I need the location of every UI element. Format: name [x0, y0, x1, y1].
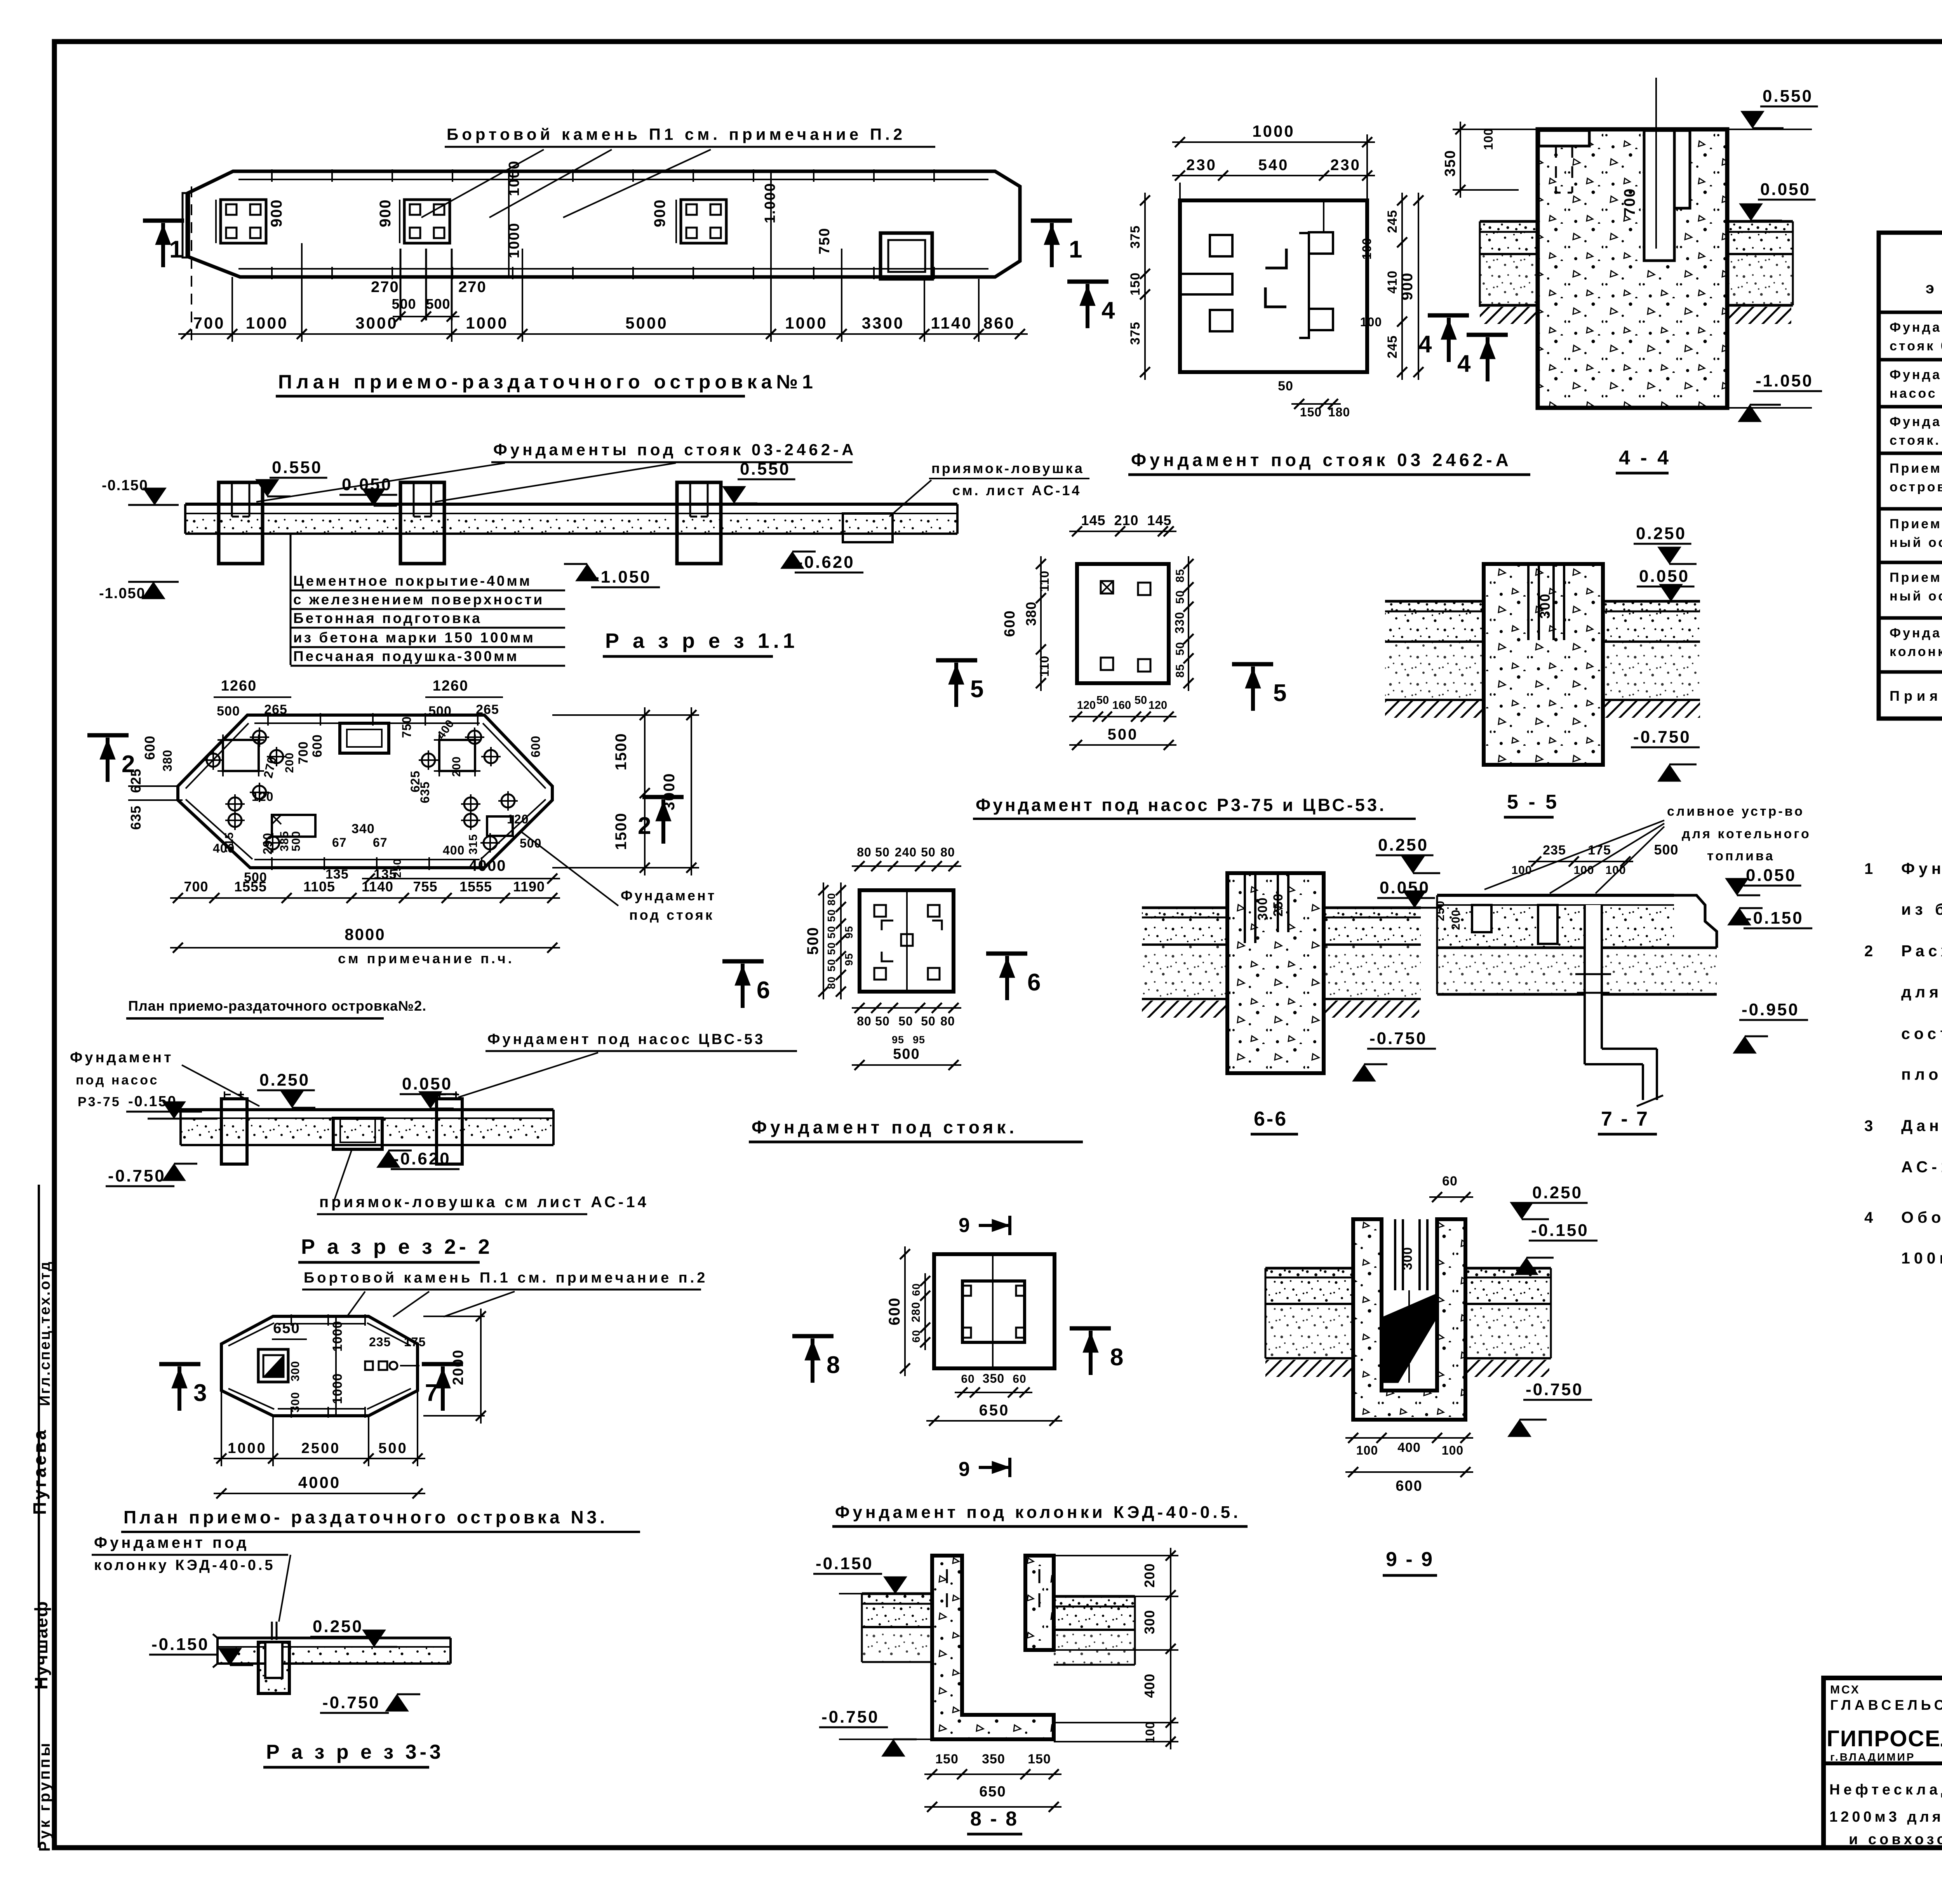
svg-text:0.050: 0.050	[402, 1074, 452, 1093]
svg-text:750: 750	[816, 228, 833, 254]
svg-text:План приемо-раздаточного остр: План приемо-раздаточного островка№2.	[128, 998, 426, 1014]
svg-text:0.050: 0.050	[1639, 567, 1690, 586]
svg-text:-1.050: -1.050	[1756, 371, 1813, 390]
svg-text:9 - 9: 9 - 9	[1386, 1548, 1434, 1571]
svg-text:приямок-ловушка: приямок-ловушка	[931, 460, 1084, 476]
svg-text:Данный лист смотреть совмес: Данный лист смотреть совместно с листом	[1901, 1117, 1942, 1135]
svg-text:Р а з р е з 2- 2: Р а з р е з 2- 2	[301, 1235, 493, 1258]
svg-text:900: 900	[1399, 272, 1416, 301]
svg-text:500: 500	[217, 704, 240, 719]
svg-text:80: 80	[940, 1014, 955, 1028]
svg-text:2000: 2000	[450, 1349, 466, 1385]
svg-text:План приемо-раздаточного ост: План приемо-раздаточного островка№1	[278, 371, 817, 393]
svg-text:1: 1	[1069, 236, 1082, 263]
svg-text:стояк.: стояк.	[1890, 433, 1941, 448]
svg-text:67: 67	[332, 835, 347, 849]
section 7-7	[1434, 804, 1812, 1106]
svg-text:110: 110	[1037, 656, 1051, 677]
svg-text:9: 9	[959, 1458, 970, 1481]
svg-text:150: 150	[1128, 272, 1143, 296]
section 8-8	[813, 1548, 1178, 1834]
svg-text:2: 2	[122, 751, 135, 778]
svg-text:500: 500	[392, 296, 416, 312]
svg-text:Рук группы: Рук группы	[36, 1741, 53, 1852]
svg-text:80: 80	[825, 893, 837, 905]
svg-text:Р а з р е з 3-3: Р а з р е з 3-3	[266, 1741, 444, 1763]
left margin rule	[38, 1185, 40, 1848]
svg-text:385: 385	[278, 831, 291, 851]
section Разрез 1-1	[99, 440, 1089, 666]
svg-text:э л е м е н т а.: э л е м е н т а.	[1926, 280, 1942, 297]
svg-text:Пугаева: Пугаева	[30, 1428, 50, 1515]
svg-text:0.550: 0.550	[272, 458, 322, 477]
svg-text:7 - 7: 7 - 7	[1601, 1108, 1649, 1130]
svg-text:300: 300	[289, 1392, 302, 1412]
svg-text:700: 700	[184, 879, 208, 895]
svg-text:60: 60	[910, 1283, 922, 1296]
svg-text:85: 85	[1174, 664, 1187, 677]
svg-text:0.050: 0.050	[1746, 866, 1796, 885]
svg-text:МСХ: МСХ	[1830, 1683, 1860, 1696]
svg-text:67: 67	[373, 835, 388, 849]
svg-text:50: 50	[921, 845, 936, 859]
svg-text:колонку КЭД-40-0.5.: колонку КЭД-40-0.5.	[1890, 644, 1942, 659]
svg-text:240: 240	[895, 845, 917, 859]
svg-text:-0.950: -0.950	[1742, 1000, 1799, 1019]
svg-text:4 - 4: 4 - 4	[1619, 447, 1671, 469]
svg-text:Фундамент под насос ЦВС-53: Фундамент под насос ЦВС-53	[487, 1031, 765, 1048]
section Разрез 2-2	[70, 1031, 797, 1262]
svg-text:из бетона марки- 150.: из бетона марки- 150.	[1901, 900, 1942, 918]
svg-text:-0.750: -0.750	[1369, 1029, 1427, 1048]
svg-text:для отделения приемо-разда т: для отделения приемо-разда точной площад…	[1901, 983, 1942, 1001]
svg-text:300: 300	[1255, 897, 1270, 921]
svg-text:Бортовой камень П1 см. п: Бортовой камень П1 см. примечание П.2	[447, 125, 906, 143]
svg-text:50: 50	[1135, 694, 1147, 707]
svg-text:175: 175	[404, 1335, 426, 1349]
svg-text:50: 50	[921, 1014, 936, 1028]
svg-text:составляет-36шт; для площадк: составляет-36шт; для площадки 2 - 17шт. …	[1901, 1025, 1942, 1043]
svg-text:Фундамент под колонки КЭД-40: Фундамент под колонки КЭД-40-0.5.	[835, 1503, 1241, 1522]
svg-text:100: 100	[1511, 864, 1532, 877]
svg-text:2: 2	[1864, 943, 1873, 960]
svg-text:1200м3 для колхозов: 1200м3 для колхозов	[1829, 1809, 1942, 1825]
svg-text:ГИПРОСЕЛЬХОЗПРОМ: ГИПРОСЕЛЬХОЗПРОМ	[1827, 1726, 1942, 1751]
svg-text:500: 500	[378, 1440, 407, 1457]
svg-text:50: 50	[825, 926, 837, 938]
svg-text:50: 50	[825, 909, 837, 922]
svg-text:-0.750: -0.750	[821, 1707, 879, 1726]
svg-text:900: 900	[651, 199, 668, 227]
svg-text:600: 600	[310, 734, 325, 757]
svg-text:Фундамент под: Фундамент под	[1890, 626, 1942, 640]
svg-text:0.250: 0.250	[1636, 524, 1686, 543]
svg-text:Нучшаеф: Нучшаеф	[31, 1601, 51, 1690]
svg-text:Игл.спец.тех.отд: Игл.спец.тех.отд	[37, 1260, 53, 1406]
svg-text:-0.150: -0.150	[151, 1635, 209, 1654]
section 5-5	[1385, 524, 1700, 781]
svg-text:8000: 8000	[345, 925, 385, 943]
plan: фундамент под стояк 03 2462-А	[1067, 122, 1671, 475]
svg-text:Фундамент под стояк 03 2462-: Фундамент под стояк 03 2462-А	[1131, 450, 1512, 470]
svg-text:50: 50	[1096, 694, 1109, 707]
svg-text:300: 300	[289, 1361, 302, 1381]
svg-text:315: 315	[467, 834, 480, 855]
svg-text:8 - 8: 8 - 8	[970, 1808, 1018, 1830]
svg-text:1555: 1555	[234, 879, 267, 895]
svg-text:350: 350	[983, 1371, 1004, 1385]
left margin signatures (rotated)	[30, 1260, 53, 1852]
svg-text:1000: 1000	[246, 314, 288, 332]
svg-text:0.550: 0.550	[1763, 87, 1813, 106]
svg-text:5: 5	[1273, 680, 1286, 707]
svg-text:Р а з р е з 1.1: Р а з р е з 1.1	[605, 629, 799, 653]
svg-text:270: 270	[371, 278, 399, 296]
svg-text:см примечание п.ч.: см примечание п.ч.	[338, 950, 514, 966]
svg-text:7: 7	[425, 1380, 438, 1406]
svg-text:340: 340	[352, 821, 375, 836]
svg-text:0.250: 0.250	[313, 1617, 363, 1636]
svg-text:300: 300	[1142, 1610, 1157, 1634]
svg-text:Фундаменты под оборудование: Фундаменты под оборудование выполнить	[1901, 860, 1942, 877]
svg-text:380: 380	[160, 750, 174, 771]
svg-text:5 - 5: 5 - 5	[1507, 791, 1559, 813]
svg-text:80: 80	[857, 1014, 872, 1028]
svg-text:750: 750	[400, 716, 414, 738]
svg-text:60: 60	[1013, 1373, 1026, 1385]
svg-text:-0.150: -0.150	[1531, 1221, 1589, 1240]
svg-text:250: 250	[391, 858, 403, 878]
svg-text:6: 6	[1027, 969, 1041, 996]
svg-text:Фундамент под: Фундамент под	[94, 1534, 249, 1551]
svg-text:Фундамент: Фундамент	[70, 1049, 174, 1066]
svg-text:4000: 4000	[469, 857, 506, 874]
svg-text:1260: 1260	[433, 678, 469, 694]
svg-text:9: 9	[959, 1214, 970, 1237]
svg-text:230: 230	[1330, 157, 1361, 174]
svg-text:50: 50	[875, 845, 890, 859]
svg-text:380: 380	[1023, 601, 1039, 626]
svg-text:100: 100	[1360, 315, 1382, 329]
svg-text:50: 50	[1174, 590, 1187, 604]
svg-text:245: 245	[1385, 210, 1400, 233]
svg-text:860: 860	[983, 314, 1015, 332]
svg-text:330: 330	[1173, 612, 1187, 634]
svg-text:Фундамент: Фундамент	[621, 888, 716, 903]
svg-text:Расход бортовых камней "П: Расход бортовых камней "П (ГОСТ 6665-63)	[1901, 942, 1942, 960]
svg-text:Фундаменты под стояк 03-2462: Фундаменты под стояк 03-2462-А	[493, 440, 856, 459]
svg-text:500: 500	[290, 831, 303, 851]
svg-text:50: 50	[898, 1014, 913, 1028]
svg-text:700: 700	[193, 314, 225, 332]
svg-text:200: 200	[283, 752, 296, 773]
svg-text:100: 100	[1481, 128, 1495, 150]
svg-text:500: 500	[426, 296, 450, 312]
svg-text:8: 8	[1110, 1344, 1123, 1371]
svg-text:290: 290	[261, 833, 275, 855]
svg-text:160: 160	[1112, 699, 1131, 712]
svg-text:900: 900	[268, 199, 285, 227]
svg-text:сливное устр-во: сливное устр-во	[1667, 804, 1805, 819]
svg-text:175: 175	[1588, 843, 1611, 858]
svg-text:350: 350	[1442, 150, 1458, 176]
svg-text:265: 265	[476, 702, 499, 717]
svg-text:см. лист АС-14: см. лист АС-14	[952, 482, 1081, 498]
svg-text:ГЛАВСЕЛЬСТРОЙПРОЕКТ: ГЛАВСЕЛЬСТРОЙПРОЕКТ	[1830, 1697, 1942, 1713]
svg-text:3: 3	[193, 1380, 207, 1406]
plan: приемо-раздаточный островок 2	[87, 678, 716, 1018]
svg-text:1500: 1500	[613, 813, 630, 850]
svg-text:350: 350	[982, 1752, 1005, 1767]
svg-text:1000: 1000	[785, 314, 827, 332]
svg-text:Песчаная подушка-300мм: Песчаная подушка-300мм	[293, 648, 519, 664]
title block	[1824, 1678, 1942, 1848]
svg-text:4: 4	[1864, 1209, 1873, 1226]
svg-text:Фундамент под: Фундамент под	[1890, 367, 1942, 382]
svg-text:100: 100	[1573, 864, 1594, 877]
svg-text:400: 400	[213, 841, 235, 855]
svg-text:300: 300	[1537, 593, 1553, 619]
label фундамент под колонку КЭД-40-0.5	[92, 1534, 291, 1622]
svg-text:5000: 5000	[625, 314, 668, 332]
section 9-9	[1265, 1174, 1597, 1575]
svg-text:50: 50	[825, 959, 837, 971]
svg-text:-0.750: -0.750	[322, 1693, 380, 1712]
svg-text:Приямок-ловушка.: Приямок-ловушка.	[1890, 688, 1942, 704]
svg-text:85: 85	[1174, 569, 1187, 582]
svg-text:под стояк: под стояк	[629, 907, 714, 923]
svg-text:635: 635	[128, 805, 144, 830]
svg-text:АС-14: АС-14	[1901, 1158, 1942, 1176]
svg-text:600: 600	[1002, 610, 1018, 637]
svg-text:1000: 1000	[228, 1440, 267, 1457]
svg-text:900: 900	[377, 199, 394, 227]
svg-text:-0.750: -0.750	[1526, 1380, 1584, 1399]
svg-text:и совхозов.: и совхозов.	[1849, 1831, 1942, 1848]
svg-text:1105: 1105	[303, 879, 335, 895]
svg-text:50: 50	[1174, 642, 1187, 655]
svg-text:1500: 1500	[613, 733, 630, 771]
svg-text:50: 50	[875, 1014, 890, 1028]
svg-text:Бортовой камень П.1 см. при: Бортовой камень П.1 см. примечание п.2	[304, 1270, 708, 1286]
svg-text:-0.150: -0.150	[1746, 908, 1804, 928]
svg-text:1260: 1260	[221, 678, 257, 694]
svg-text:ный островок 3.: ный островок 3.	[1890, 589, 1942, 604]
svg-text:колонку КЭД-40-0.5: колонку КЭД-40-0.5	[94, 1557, 275, 1573]
svg-text:265: 265	[264, 702, 287, 717]
svg-text:150: 150	[935, 1752, 959, 1767]
svg-text:1555: 1555	[459, 879, 492, 895]
svg-text:3: 3	[1864, 1117, 1873, 1135]
plan: фундамент под насос РЗ-75 и ЦВС-53	[936, 512, 1559, 819]
svg-text:375: 375	[1128, 225, 1143, 249]
svg-text:1: 1	[169, 236, 183, 263]
section Разрез 3-3	[149, 1617, 451, 1767]
svg-text:Фундамент под: Фундамент под	[1890, 320, 1942, 335]
svg-text:для котельного: для котельного	[1682, 827, 1811, 841]
svg-text:600: 600	[886, 1297, 903, 1326]
svg-text:600: 600	[1396, 1478, 1422, 1494]
svg-text:0.250: 0.250	[259, 1070, 310, 1089]
svg-text:635: 635	[418, 781, 432, 803]
svg-text:Р3-75: Р3-75	[78, 1095, 121, 1109]
svg-text:120: 120	[1148, 699, 1167, 712]
svg-text:120: 120	[252, 790, 273, 804]
svg-text:6: 6	[757, 977, 770, 1004]
section 4-4	[1442, 78, 1822, 422]
svg-text:1000: 1000	[1252, 122, 1295, 140]
svg-text:Нефтесклад емкостью: Нефтесклад емкостью	[1829, 1782, 1942, 1798]
table: Расход бетона	[1879, 208, 1942, 719]
svg-text:приямок-ловушка см лист АС-: приямок-ловушка см лист АС-14	[319, 1194, 649, 1211]
svg-text:80: 80	[857, 845, 872, 859]
plan: фундамент под колонки КЭД-40-0.5	[792, 1214, 1248, 1526]
svg-text:стояк 03-2462-А.: стояк 03-2462-А.	[1890, 339, 1942, 353]
svg-text:4: 4	[1418, 331, 1432, 358]
svg-text:245: 245	[1385, 335, 1400, 359]
svg-text:60: 60	[910, 1330, 922, 1342]
svg-text:-0.150: -0.150	[102, 477, 148, 494]
svg-text:50: 50	[825, 942, 837, 955]
svg-text:150: 150	[1300, 405, 1322, 419]
svg-text:-0.750: -0.750	[1633, 727, 1691, 747]
svg-text:270: 270	[458, 278, 487, 296]
svg-text:Обозначенные колодцы выполни: Обозначенные колодцы выполнить ф 50мм. г…	[1901, 1208, 1942, 1226]
svg-text:Приемо-раздаточный: Приемо-раздаточный	[1890, 461, 1942, 476]
svg-text:5: 5	[970, 676, 983, 703]
svg-text:4: 4	[1457, 350, 1471, 377]
svg-text:250: 250	[1271, 893, 1286, 917]
svg-text:650: 650	[273, 1320, 300, 1337]
svg-text:1190: 1190	[513, 879, 545, 895]
svg-text:230: 230	[1186, 157, 1217, 174]
svg-text:Фундамент под стояк.: Фундамент под стояк.	[752, 1117, 1018, 1137]
svg-text:площадки 3 - 10шт.: площадки 3 - 10шт.	[1901, 1065, 1942, 1083]
svg-text:ный островок 2: ный островок 2	[1890, 535, 1942, 550]
svg-text:4000: 4000	[298, 1473, 341, 1492]
svg-text:500: 500	[1108, 726, 1138, 743]
svg-text:Приемо-раздаточ-: Приемо-раздаточ-	[1890, 517, 1942, 531]
plan: приемо-раздаточный островок 1	[143, 125, 1082, 396]
svg-text:2500: 2500	[301, 1440, 341, 1457]
svg-text:60: 60	[1442, 1174, 1458, 1189]
svg-text:4: 4	[1102, 297, 1115, 324]
svg-text:700: 700	[1621, 188, 1638, 216]
svg-text:-0.620: -0.620	[393, 1149, 451, 1168]
svg-text:500: 500	[893, 1046, 920, 1062]
svg-text:200: 200	[450, 756, 463, 777]
svg-text:Приемо-раздаточ-: Приемо-раздаточ-	[1890, 570, 1942, 585]
svg-text:8: 8	[827, 1352, 840, 1378]
svg-text:650: 650	[979, 1402, 1010, 1419]
svg-text:насос Р3-75 и ЦВС-53: насос Р3-75 и ЦВС-53	[1890, 386, 1942, 401]
svg-text:0.250: 0.250	[1378, 835, 1429, 855]
svg-text:-1.050: -1.050	[99, 585, 146, 602]
svg-text:210: 210	[1114, 512, 1138, 528]
svg-text:95: 95	[843, 953, 855, 966]
plan: фундамент под стояк	[722, 845, 1657, 1142]
svg-text:95: 95	[843, 926, 855, 938]
svg-text:250: 250	[1434, 900, 1447, 921]
svg-text:500: 500	[428, 704, 452, 719]
svg-text:200: 200	[1142, 1563, 1157, 1587]
svg-text:г.ВЛАДИМИР: г.ВЛАДИМИР	[1830, 1751, 1915, 1763]
svg-text:95: 95	[892, 1034, 904, 1046]
svg-text:180: 180	[1328, 405, 1350, 419]
svg-text:235: 235	[369, 1335, 391, 1349]
svg-text:280: 280	[910, 1302, 922, 1322]
svg-text:островок: островок	[1890, 480, 1942, 494]
svg-text:3300: 3300	[862, 314, 904, 332]
svg-text:1: 1	[1864, 860, 1873, 877]
svg-text:0.050: 0.050	[1760, 180, 1811, 199]
svg-text:235: 235	[1543, 843, 1566, 858]
svg-text:-0.620: -0.620	[797, 553, 855, 572]
section 6-6	[1142, 835, 1442, 1081]
svg-text:-0.150: -0.150	[816, 1554, 874, 1573]
svg-text:100: 100	[1605, 864, 1626, 877]
svg-text:Фундамент под насос Р3-75 и: Фундамент под насос Р3-75 и ЦВС-53.	[976, 795, 1387, 815]
svg-text:145: 145	[1147, 512, 1171, 528]
svg-text:с железнением поверхности: с железнением поверхности	[293, 592, 544, 607]
svg-text:200: 200	[1450, 909, 1462, 930]
svg-text:Цементное покрытие-40мм: Цементное покрытие-40мм	[293, 573, 532, 589]
svg-text:топлива: топлива	[1707, 849, 1775, 863]
svg-text:150: 150	[1028, 1752, 1051, 1767]
svg-text:540: 540	[1258, 157, 1289, 174]
plan: приемо-раздаточный островок 3	[121, 1270, 708, 1532]
svg-text:500: 500	[804, 927, 821, 955]
svg-text:120: 120	[507, 812, 529, 826]
svg-text:120: 120	[1077, 699, 1096, 712]
svg-text:410: 410	[1385, 270, 1400, 294]
svg-text:110: 110	[1037, 571, 1051, 592]
svg-text:300: 300	[1400, 1247, 1415, 1270]
svg-text:60: 60	[961, 1373, 974, 1385]
svg-text:1000: 1000	[330, 1321, 345, 1352]
svg-text:650: 650	[979, 1784, 1006, 1800]
svg-text:100: 100	[1442, 1443, 1463, 1457]
svg-text:0.250: 0.250	[1532, 1183, 1583, 1202]
svg-text:1140: 1140	[931, 314, 972, 332]
svg-text:50: 50	[1278, 379, 1293, 393]
svg-text:3000: 3000	[355, 314, 398, 332]
svg-text:400: 400	[1397, 1440, 1421, 1455]
svg-text:600: 600	[142, 735, 158, 760]
svg-text:2: 2	[638, 813, 651, 839]
svg-text:95: 95	[913, 1034, 925, 1046]
svg-text:Бетонная подготовка: Бетонная подготовка	[293, 610, 482, 626]
svg-text:145: 145	[1081, 512, 1105, 528]
svg-text:1000: 1000	[330, 1373, 345, 1404]
svg-text:600: 600	[529, 736, 543, 757]
svg-text:755: 755	[413, 879, 437, 895]
svg-text:100: 100	[1356, 1443, 1378, 1457]
svg-text:80: 80	[825, 976, 837, 989]
svg-text:из бетона марки 150 100мм: из бетона марки 150 100мм	[293, 630, 535, 646]
svg-text:1000: 1000	[466, 314, 508, 332]
svg-text:0.550: 0.550	[740, 459, 790, 479]
svg-text:80: 80	[940, 845, 955, 859]
svg-text:700: 700	[296, 741, 311, 764]
svg-text:-0.750: -0.750	[108, 1166, 166, 1185]
svg-text:375: 375	[1128, 322, 1143, 345]
svg-text:400: 400	[443, 843, 465, 857]
svg-text:100: 100	[1143, 1721, 1157, 1743]
svg-text:6-6: 6-6	[1254, 1108, 1288, 1130]
svg-text:План приемо- раздаточного ос: План приемо- раздаточного островка N3.	[124, 1507, 608, 1527]
svg-text:100мм, все остальные- выполн: 100мм, все остальные- выполнить ф 150мм.…	[1901, 1249, 1942, 1267]
